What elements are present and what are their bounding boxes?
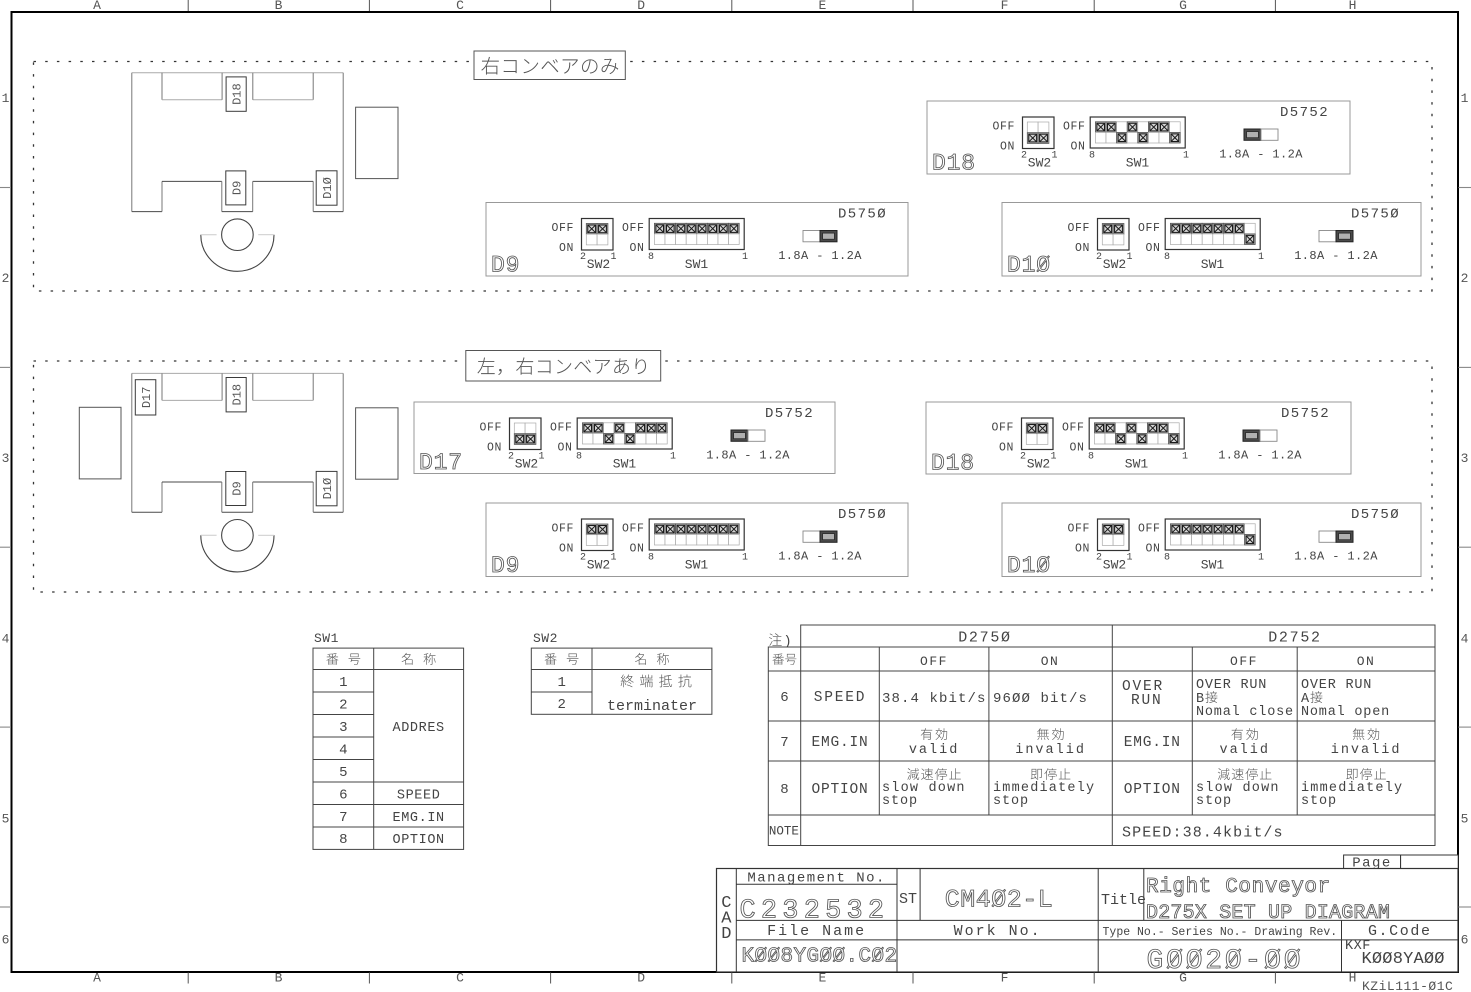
drawing number cell — [1103, 926, 1338, 977]
svg-text:SW2: SW2 — [515, 457, 538, 472]
svg-text:D18: D18 — [932, 151, 976, 177]
D1Ø slide switch 1.8A-1.2A — [1294, 531, 1378, 564]
svg-text:C: C — [456, 0, 464, 13]
D9 DIP switch SW1 — [648, 219, 748, 273]
D1Ø DIP switch SW2 — [1096, 219, 1161, 273]
svg-text:D2752: D2752 — [1268, 630, 1322, 647]
D18 DIP switch SW2 — [1021, 117, 1086, 171]
svg-text:1: 1 — [1126, 252, 1132, 263]
D17 DIP switch SW1 — [576, 418, 676, 472]
svg-text:ON: ON — [1069, 442, 1084, 455]
svg-text:3: 3 — [2, 451, 10, 466]
setup panel D18 (D5752) — [926, 402, 1351, 477]
svg-text:D: D — [637, 971, 645, 986]
svg-text:ON: ON — [1075, 242, 1090, 255]
svg-text:2: 2 — [1096, 252, 1102, 263]
svg-text:2: 2 — [1021, 151, 1027, 162]
svg-text:8: 8 — [1089, 151, 1095, 162]
svg-text:SW1: SW1 — [314, 631, 339, 646]
svg-text:ADDRES: ADDRES — [393, 721, 445, 736]
svg-text:E: E — [818, 971, 826, 986]
section title box 2: hidari,migi-conveyor-ari — [466, 351, 661, 382]
svg-text:D17: D17 — [419, 450, 463, 476]
svg-text:KØØ8YGØØ.CØ2: KØØ8YGØØ.CØ2 — [742, 946, 898, 969]
operator position semicircle — [201, 520, 274, 572]
D9 slide switch 1.8A-1.2A — [778, 231, 862, 264]
svg-text:OFF: OFF — [622, 222, 645, 235]
management number cell — [740, 871, 890, 927]
svg-text:ON: ON — [559, 543, 574, 556]
svg-text:ON: ON — [1145, 543, 1160, 556]
table: D2750 / D2752 switch settings — [768, 625, 1435, 846]
svg-text:D18: D18 — [931, 451, 975, 477]
svg-text:8: 8 — [648, 252, 654, 263]
title cell — [1101, 876, 1390, 925]
svg-text:SW2: SW2 — [1103, 257, 1126, 272]
setup panel D17 (D5752) — [414, 402, 835, 476]
D9 DIP switch SW1 — [648, 519, 748, 573]
svg-text:ON: ON — [1145, 242, 1160, 255]
svg-text:D5752: D5752 — [1280, 105, 1329, 121]
svg-text:SW2: SW2 — [587, 558, 610, 573]
svg-text:OPTION: OPTION — [811, 782, 868, 798]
svg-text:File Name: File Name — [767, 923, 866, 940]
setup panel D18 (D5752) — [927, 101, 1350, 177]
svg-text:SW1: SW1 — [1125, 457, 1149, 472]
svg-text:Nomal open: Nomal open — [1301, 705, 1390, 720]
docking station rectangle (right) — [356, 408, 398, 479]
D9 DIP switch SW2 — [580, 219, 645, 273]
svg-text:valid: valid — [1219, 743, 1270, 758]
svg-text:D575Ø: D575Ø — [838, 507, 887, 523]
svg-text:OFF: OFF — [550, 422, 573, 435]
svg-text:stop: stop — [1196, 794, 1232, 809]
svg-text:ON: ON — [629, 543, 644, 556]
svg-text:OFF: OFF — [1067, 222, 1090, 235]
svg-text:Management No.: Management No. — [747, 871, 886, 887]
svg-text:3: 3 — [339, 720, 347, 736]
svg-text:6: 6 — [780, 690, 788, 706]
svg-text:4: 4 — [1461, 632, 1469, 647]
svg-text:Title: Title — [1101, 892, 1146, 909]
svg-text:stop: stop — [1301, 794, 1337, 809]
module position label D17 — [135, 380, 156, 415]
svg-text:OFF: OFF — [992, 121, 1015, 134]
svg-text:SW1: SW1 — [1201, 257, 1225, 272]
svg-text:OFF: OFF — [551, 523, 574, 536]
svg-text:D: D — [721, 925, 731, 944]
D9 DIP switch SW2 — [580, 519, 645, 573]
svg-text:D575Ø: D575Ø — [838, 207, 887, 223]
svg-text:2: 2 — [557, 697, 565, 713]
svg-text:96ØØ bit/s: 96ØØ bit/s — [993, 691, 1088, 707]
svg-text:OFF: OFF — [1062, 422, 1085, 435]
D18 DIP switch SW1 — [1088, 418, 1188, 472]
svg-text:stop: stop — [993, 794, 1029, 809]
svg-text:A: A — [93, 971, 101, 986]
svg-text:valid: valid — [909, 743, 960, 758]
svg-text:1.8A - 1.2A: 1.8A - 1.2A — [706, 449, 790, 463]
svg-text:8: 8 — [339, 832, 347, 848]
svg-text:C: C — [456, 971, 464, 986]
CAD letters — [721, 894, 732, 944]
setup panel D1Ø (D575Ø) — [1002, 203, 1421, 279]
setup panel D9 (D575Ø) — [486, 503, 908, 579]
module position label D1Ø — [316, 471, 337, 505]
svg-text:1.8A - 1.2A: 1.8A - 1.2A — [778, 249, 862, 263]
svg-text:3: 3 — [1461, 451, 1469, 466]
svg-text:Right Conveyor: Right Conveyor — [1146, 876, 1331, 899]
svg-text:1: 1 — [670, 452, 676, 463]
svg-text:1.8A - 1.2A: 1.8A - 1.2A — [778, 550, 862, 564]
svg-text:E: E — [818, 0, 826, 13]
svg-text:OFF: OFF — [1138, 222, 1161, 235]
svg-text:SPEED:38.4kbit/s: SPEED:38.4kbit/s — [1122, 825, 1284, 842]
svg-text:2: 2 — [2, 271, 10, 286]
svg-text:stop: stop — [882, 794, 918, 809]
svg-text:1: 1 — [742, 252, 748, 263]
svg-text:6: 6 — [2, 933, 10, 948]
svg-text:1: 1 — [1183, 151, 1189, 162]
svg-text:G.Code: G.Code — [1368, 923, 1432, 940]
svg-text:OFF: OFF — [622, 523, 645, 536]
svg-text:D18: D18 — [231, 384, 245, 406]
D1Ø DIP switch SW1 — [1164, 219, 1264, 273]
svg-text:C232532: C232532 — [740, 897, 890, 927]
svg-text:D1Ø: D1Ø — [321, 177, 335, 199]
svg-text:D1Ø: D1Ø — [321, 478, 335, 500]
svg-text:EMG.IN: EMG.IN — [393, 811, 445, 826]
svg-text:D5752: D5752 — [1281, 406, 1330, 422]
svg-text:D575Ø: D575Ø — [1351, 207, 1400, 223]
D9 slide switch 1.8A-1.2A — [778, 531, 862, 564]
svg-text:OFF: OFF — [1230, 654, 1258, 669]
module position label D18 — [226, 378, 246, 412]
ST / machine type cell — [899, 886, 1053, 915]
svg-text:1: 1 — [1050, 452, 1056, 463]
D1Ø DIP switch SW1 — [1164, 519, 1264, 573]
file name cell — [742, 923, 898, 969]
machine outline (left+right section) — [132, 373, 343, 512]
module position label D9 — [226, 472, 246, 506]
D1Ø slide switch 1.8A-1.2A — [1294, 231, 1378, 264]
svg-text:ON: ON — [629, 242, 644, 255]
svg-text:SW2: SW2 — [533, 631, 558, 646]
svg-text:GØØ2Ø-ØØ: GØØ2Ø-ØØ — [1146, 946, 1303, 977]
D18 DIP switch SW1 — [1089, 117, 1189, 171]
svg-text:D5752: D5752 — [765, 406, 814, 422]
svg-text:SW1: SW1 — [613, 457, 637, 472]
D17 DIP switch SW2 — [508, 418, 573, 472]
svg-text:SPEED: SPEED — [397, 788, 441, 803]
svg-text:D17: D17 — [140, 387, 154, 409]
svg-text:ON: ON — [1000, 141, 1015, 154]
machine outline (right-only section) — [132, 73, 343, 212]
svg-text:NOTE: NOTE — [769, 825, 799, 839]
svg-text:8: 8 — [576, 452, 582, 463]
svg-text:8: 8 — [1164, 553, 1170, 564]
svg-text:8: 8 — [1088, 452, 1094, 463]
svg-text:D18: D18 — [231, 83, 245, 105]
svg-text:D1Ø: D1Ø — [1007, 553, 1051, 579]
svg-text:2: 2 — [1096, 553, 1102, 564]
module position label D9 — [226, 171, 246, 205]
svg-text:1.8A - 1.2A: 1.8A - 1.2A — [1219, 148, 1303, 162]
svg-text:CM4Ø2-L: CM4Ø2-L — [945, 886, 1054, 915]
svg-text:D9: D9 — [230, 181, 244, 195]
D1Ø DIP switch SW2 — [1096, 519, 1161, 573]
svg-text:1.8A - 1.2A: 1.8A - 1.2A — [1294, 249, 1378, 263]
svg-text:SW2: SW2 — [1103, 558, 1126, 573]
svg-text:2: 2 — [580, 553, 586, 564]
svg-text:5: 5 — [2, 812, 10, 827]
svg-text:D9: D9 — [491, 253, 520, 279]
svg-text:OPTION: OPTION — [1124, 782, 1181, 798]
svg-text:OFF: OFF — [1067, 523, 1090, 536]
svg-text:D9: D9 — [230, 481, 244, 495]
svg-text:OFF: OFF — [1063, 121, 1086, 134]
svg-text:Type No.- Series No.- Drawing: Type No.- Series No.- Drawing Rev. — [1103, 926, 1338, 939]
svg-text:8: 8 — [780, 782, 788, 798]
svg-text:ON: ON — [1357, 654, 1376, 669]
svg-text:4: 4 — [339, 742, 347, 758]
svg-text:OPTION: OPTION — [393, 833, 445, 848]
svg-text:B: B — [275, 0, 283, 13]
svg-text:1.8A - 1.2A: 1.8A - 1.2A — [1294, 550, 1378, 564]
svg-text:KØØ8YAØØ: KØØ8YAØØ — [1362, 950, 1445, 969]
svg-text:1: 1 — [1126, 553, 1132, 564]
svg-text:1: 1 — [1461, 91, 1469, 106]
svg-text:1: 1 — [1258, 252, 1264, 263]
module position label D1Ø — [316, 171, 337, 205]
table: SW2 bit functions — [531, 631, 712, 715]
svg-text:ON: ON — [487, 442, 502, 455]
svg-text:1: 1 — [557, 675, 565, 691]
svg-text:SW2: SW2 — [587, 257, 610, 272]
svg-text:4: 4 — [2, 632, 10, 647]
svg-text:SW1: SW1 — [1201, 558, 1225, 573]
svg-text:SPEED: SPEED — [814, 690, 867, 706]
section title box 1: migi-conveyor-nomi — [474, 51, 625, 80]
svg-text:SW1: SW1 — [685, 558, 709, 573]
svg-text:F: F — [1001, 0, 1009, 13]
title block — [717, 869, 1459, 973]
svg-text:Work No.: Work No. — [954, 923, 1042, 940]
svg-text:OFF: OFF — [1138, 523, 1161, 536]
svg-text:1: 1 — [1258, 553, 1264, 564]
svg-text:EMG.IN: EMG.IN — [811, 735, 868, 751]
note marker — [769, 633, 792, 650]
svg-text:OVER RUN: OVER RUN — [1301, 678, 1372, 693]
svg-text:OFF: OFF — [551, 222, 574, 235]
svg-text:terminater: terminater — [607, 698, 697, 715]
svg-text:1: 1 — [742, 553, 748, 564]
svg-text:SW1: SW1 — [1126, 156, 1150, 171]
svg-text:6: 6 — [1461, 933, 1469, 948]
svg-text:B: B — [275, 971, 283, 986]
svg-text:D1Ø: D1Ø — [1007, 253, 1051, 279]
svg-text:D: D — [637, 0, 645, 13]
svg-text:6: 6 — [339, 787, 347, 803]
svg-text:Nomal close: Nomal close — [1196, 705, 1294, 720]
D17 slide switch 1.8A-1.2A — [706, 430, 790, 463]
operator position semicircle — [201, 219, 274, 271]
svg-text:A: A — [93, 0, 101, 13]
svg-text:H: H — [1349, 971, 1357, 986]
svg-text:invalid: invalid — [1015, 743, 1086, 758]
svg-text:ON: ON — [1070, 141, 1085, 154]
D18 slide switch 1.8A-1.2A — [1218, 430, 1302, 463]
svg-text:ON: ON — [1075, 543, 1090, 556]
svg-text:1: 1 — [538, 452, 544, 463]
svg-text:KZiL111-Ø1C: KZiL111-Ø1C — [1362, 979, 1453, 992]
svg-text:EMG.IN: EMG.IN — [1124, 735, 1181, 751]
svg-text:SW1: SW1 — [685, 257, 709, 272]
sheet code — [1362, 979, 1453, 992]
svg-text:2: 2 — [1461, 271, 1469, 286]
svg-text:2: 2 — [508, 452, 514, 463]
svg-text:2: 2 — [339, 697, 347, 713]
svg-text:ON: ON — [557, 442, 572, 455]
svg-text:OVER RUN: OVER RUN — [1196, 678, 1267, 693]
svg-text:H: H — [1349, 0, 1357, 13]
section box: right conveyor only (dashed) — [34, 62, 1433, 292]
D18 DIP switch SW2 — [1020, 418, 1085, 472]
svg-text:F: F — [1001, 971, 1009, 986]
svg-text:2: 2 — [1020, 452, 1026, 463]
svg-text:D9: D9 — [491, 553, 520, 579]
docking station rectangle (left) — [79, 407, 121, 479]
svg-text:OFF: OFF — [920, 654, 948, 669]
section box: left+right conveyor (dashed) — [34, 361, 1433, 592]
svg-text:1: 1 — [610, 553, 616, 564]
svg-text:ON: ON — [559, 242, 574, 255]
svg-text:7: 7 — [780, 735, 788, 751]
setup panel D9 (D575Ø) — [486, 203, 908, 279]
svg-text:D275X SET UP DIAGRAM: D275X SET UP DIAGRAM — [1146, 902, 1390, 925]
svg-text:7: 7 — [339, 810, 347, 826]
table: SW1 bit functions — [313, 631, 464, 849]
D18 slide switch 1.8A-1.2A — [1219, 129, 1303, 162]
svg-text:5: 5 — [1461, 812, 1469, 827]
svg-text:1: 1 — [1182, 452, 1188, 463]
svg-text:1: 1 — [339, 675, 347, 691]
svg-text:5: 5 — [339, 765, 347, 781]
svg-text:38.4 kbit/s: 38.4 kbit/s — [882, 691, 987, 707]
page box — [1344, 855, 1459, 872]
svg-text:1.8A - 1.2A: 1.8A - 1.2A — [1218, 449, 1302, 463]
svg-text:RUN: RUN — [1131, 693, 1163, 709]
svg-text:1: 1 — [1051, 151, 1057, 162]
module position label D18 — [226, 77, 246, 111]
svg-text:OFF: OFF — [479, 422, 502, 435]
svg-text:SW2: SW2 — [1027, 457, 1050, 472]
svg-text:invalid: invalid — [1331, 743, 1402, 758]
svg-text:8: 8 — [1164, 252, 1170, 263]
g-code cell — [1345, 923, 1445, 969]
svg-text:1: 1 — [2, 91, 10, 106]
svg-text:D275Ø: D275Ø — [958, 630, 1012, 647]
svg-text:1: 1 — [610, 252, 616, 263]
svg-text:OFF: OFF — [991, 422, 1014, 435]
docking station rectangle (right) — [356, 107, 398, 178]
svg-text:G: G — [1179, 0, 1187, 13]
svg-text:ON: ON — [999, 442, 1014, 455]
svg-text:SW2: SW2 — [1028, 156, 1051, 171]
svg-text:ON: ON — [1041, 654, 1060, 669]
svg-text:8: 8 — [648, 553, 654, 564]
svg-text:2: 2 — [580, 252, 586, 263]
svg-text:D575Ø: D575Ø — [1351, 507, 1400, 523]
svg-text:ST: ST — [899, 891, 917, 908]
work no cell — [954, 923, 1042, 940]
setup panel D1Ø (D575Ø) — [1002, 503, 1421, 579]
